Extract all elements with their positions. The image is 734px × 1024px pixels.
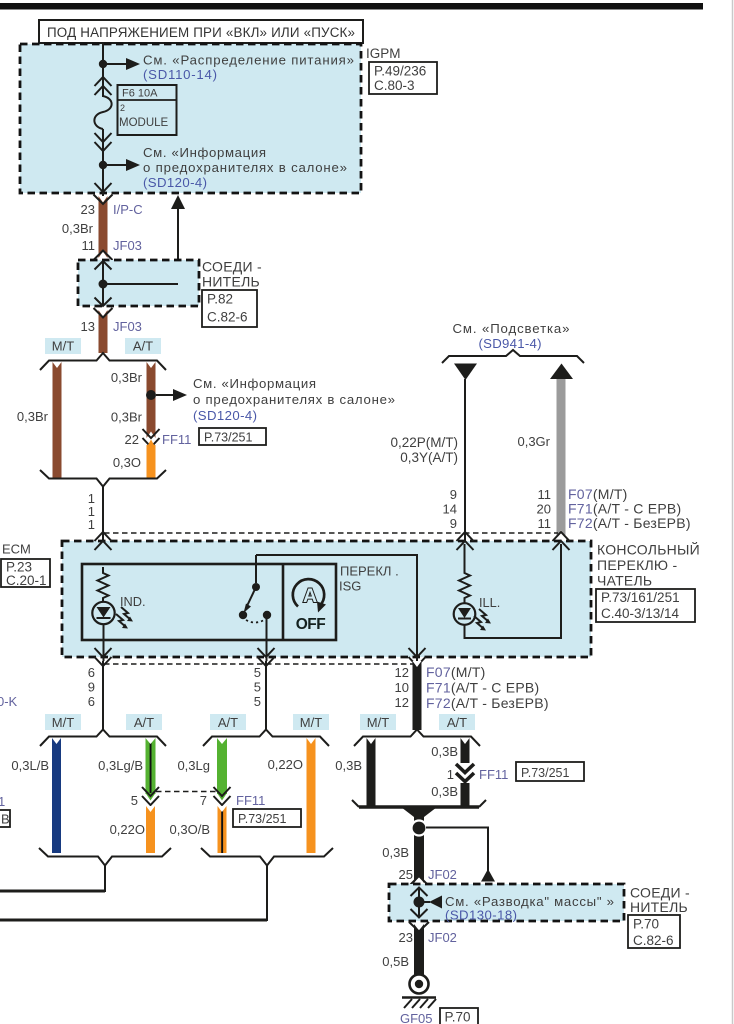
inner switch unit box [82,564,336,640]
svg-text:F72(A/T - БезEPB): F72(A/T - БезEPB) [426,695,549,711]
M/T - A/T split (upper) [40,353,166,370]
connector FF11 pin 7 [217,793,227,801]
svg-text:JF02: JF02 [428,867,457,882]
ILL loop wire [465,544,562,638]
wire 0,3B black (A/T right, above FF11) [461,738,470,763]
svg-text:20: 20 [537,502,551,517]
svg-text:0,3Lg: 0,3Lg [177,758,210,773]
svg-text:5: 5 [254,694,261,709]
svg-text:F72(A/T - БезEPB): F72(A/T - БезEPB) [568,515,691,531]
svg-text:0,3O: 0,3O [113,455,141,470]
svg-text:11: 11 [82,238,96,253]
top black bar [0,3,703,10]
page edge line [732,0,734,1024]
svg-text:F07(M/T): F07(M/T) [426,664,486,680]
svg-text:0,3B: 0,3B [431,784,458,799]
wire 0,3Lg/B green/black [146,738,156,794]
svg-text:A/T: A/T [133,339,153,354]
wire pin 6 (to split 1) [102,661,104,730]
arrow: see power distribution [107,63,127,65]
svg-text:I/P-C: I/P-C [113,202,143,217]
IGPM power block (dashed box) [20,44,361,193]
wire to body ground branch [426,828,488,872]
svg-text:5: 5 [254,680,261,695]
svg-text:11: 11 [538,516,552,531]
svg-text:0,3Lg/B: 0,3Lg/B [98,758,143,773]
svg-text:(SD941-4): (SD941-4) [479,336,542,351]
svg-text:JF03: JF03 [113,238,142,253]
svg-text:ILL.: ILL. [479,595,500,610]
svg-text:P.73/251: P.73/251 [204,431,252,445]
svg-text:0-K: 0-K [0,694,18,709]
svg-text:25: 25 [399,867,413,882]
wire 0,3Gr gray (illumination feed) [550,364,573,380]
svg-text:6: 6 [88,665,95,680]
svg-text:0,3B: 0,3B [431,744,458,759]
svg-text:См. «Подсветка»: См. «Подсветка» [453,321,570,336]
split 3 [354,730,480,747]
IGPM ref box [369,62,437,94]
exit chevron [95,183,112,192]
wire 0,22P/0,3Y thin (illumination control) [454,364,477,381]
svg-text:MODULE: MODULE [119,117,169,129]
switch feed wire to pin 12 [256,555,417,661]
svg-text:P.73/161/251: P.73/161/251 [601,590,680,605]
svg-text:9: 9 [450,516,457,531]
svg-text:A/T: A/T [447,715,467,730]
svg-text:0,3Gr: 0,3Gr [517,434,550,449]
svg-text:JF02: JF02 [428,930,457,945]
connector JF03 (dashed box СОЕДИНИТЕЛЬ) [99,252,108,259]
wire 0,3Br brown (pin 13) [99,310,108,353]
svg-text:IND.: IND. [120,594,146,609]
resistor (ILL lamp) [464,544,466,569]
svg-text:КОНСОЛЬНЫЙ: КОНСОЛЬНЫЙ [597,541,700,558]
wire 0,22O orange (below 5) [146,806,155,853]
thin dashed option link (below console) [104,663,417,665]
entry chevrons [95,532,112,550]
svg-text:0,3Br: 0,3Br [17,409,49,424]
svg-text:9: 9 [88,680,95,695]
svg-text:C.40-3/13/14: C.40-3/13/14 [601,606,680,621]
junction dot [99,60,107,68]
wire below fuse [102,129,104,196]
svg-text:0,3Br: 0,3Br [111,410,143,425]
wire 0,3Lg green [217,738,227,794]
svg-text:(SD120-4): (SD120-4) [143,175,207,190]
svg-text:(SD110-14): (SD110-14) [143,67,217,82]
svg-text:F6 10A: F6 10A [122,88,158,100]
svg-text:0,3B: 0,3B [382,845,409,860]
svg-text:M/T: M/T [52,715,74,730]
black wire below ground connector [414,924,424,975]
fuse F6 10A [94,96,111,129]
svg-text:13: 13 [81,319,95,334]
svg-text:A/T: A/T [218,715,238,730]
dashed link between connectors 5 and 7 [156,791,217,793]
svg-text:2: 2 [120,103,125,113]
title box: ПОД НАПРЯЖЕНИЕМ ПРИ «ВКЛ» ИЛИ «ПУСК» [39,20,363,43]
console switch block (КОНСОЛЬНЫЙ ПЕРЕКЛЮЧАТЕЛЬ) dashed box [62,541,591,657]
svg-text:НИТЕЛЬ: НИТЕЛЬ [630,899,688,915]
wire 0,3B black (M/T right) [367,738,376,807]
svg-text:о предохранителях в салоне»: о предохранителях в салоне» [193,392,395,407]
svg-text:P.73/251: P.73/251 [238,812,286,826]
svg-text:12: 12 [395,695,409,710]
svg-text:См. «Информация: См. «Информация [143,145,266,160]
LED IND. [92,602,114,624]
svg-text:0,22P(M/T): 0,22P(M/T) [390,435,458,450]
svg-text:F71(A/T - С EPB): F71(A/T - С EPB) [426,680,539,696]
LED ILL. [454,603,476,625]
svg-text:M/T: M/T [367,715,389,730]
svg-text:OFF: OFF [296,616,326,633]
resistor (IND lamp) [98,567,109,602]
svg-text:FF11: FF11 [162,432,191,447]
wire 0,3Br A/T right branch [147,362,156,438]
svg-text:0,3O/B: 0,3O/B [170,822,210,837]
svg-text:НИТЕЛЬ: НИТЕЛЬ [202,274,260,290]
wire 0,3B black (below FF11) [461,783,470,807]
svg-text:7: 7 [200,793,207,808]
svg-text:ПЕРЕКЛЮ -: ПЕРЕКЛЮ - [597,557,677,573]
junction dot + arrow (fuse info) [146,390,156,400]
svg-text:11: 11 [538,487,552,502]
svg-text:JF03: JF03 [113,319,142,334]
svg-text:A: A [303,585,317,607]
svg-text:FF11: FF11 [236,793,265,808]
exit chevrons (console bottom) [95,648,112,666]
ground GF05 [410,975,429,994]
junction dot [412,821,427,836]
svg-text:P.73/251: P.73/251 [521,766,569,780]
black wire to ground connector [414,812,424,883]
connector chevrons below fuse [95,133,112,151]
ISG OFF icon [293,579,324,606]
junction in connector [99,280,108,289]
svg-text:(SD120-4): (SD120-4) [193,408,257,423]
svg-text:12: 12 [395,665,409,680]
merge (upper) [40,470,166,487]
wire 0,3Br brown (pin 23 to JF03) [99,196,108,258]
wire 0,3Br M/T left branch [53,362,62,478]
up arrow into IGPM box [177,209,179,284]
svg-text:0,22O: 0,22O [268,757,303,772]
bus wire to left (upper) [0,890,105,893]
svg-text:1: 1 [447,767,454,782]
svg-text:B: B [1,812,10,827]
svg-text:22: 22 [125,432,139,447]
svg-text:C.20-1: C.20-1 [6,573,47,588]
svg-text:M/T: M/T [300,715,322,730]
svg-text:23: 23 [399,930,413,945]
junction + arrow (ground distribution) [414,897,425,908]
svg-text:о предохранителях в салоне»: о предохранителях в салоне» [143,160,347,175]
svg-text:5: 5 [254,665,261,680]
svg-text:0,3Y(A/T): 0,3Y(A/T) [400,450,458,465]
svg-text:P.70: P.70 [633,917,659,932]
split 2 [203,730,329,747]
svg-text:0,22O: 0,22O [110,822,145,837]
svg-text:23: 23 [81,202,95,217]
svg-text:См. «Распределение питания»: См. «Распределение питания» [143,53,354,68]
svg-text:ECM: ECM [2,542,31,557]
svg-text:1: 1 [0,794,5,809]
connector chevrons above fuse [95,77,112,95]
svg-text:0,3L/B: 0,3L/B [11,758,49,773]
svg-text:IGPM: IGPM [366,46,401,61]
brace [442,350,584,363]
wire to up arrow [103,283,178,285]
svg-text:5: 5 [131,793,138,808]
exit of JF03 connector [95,298,112,307]
svg-text:C.80-3: C.80-3 [374,78,415,93]
wire 0,3O/B orange/black (below 7) [218,806,227,853]
svg-text:GF05: GF05 [400,1011,433,1024]
split 1 [40,730,166,747]
bus wire to left (lower) [0,919,267,922]
connector FF11 pin 1 [456,764,474,773]
svg-text:FF11: FF11 [479,767,508,782]
svg-text:6: 6 [88,694,95,709]
svg-text:(SD130-18): (SD130-18) [445,908,517,923]
svg-text:0,3Br: 0,3Br [111,370,143,385]
svg-text:0,3B: 0,3B [335,758,362,773]
svg-text:P.70: P.70 [445,1010,471,1024]
merge 1 (navy + orange) [39,848,171,866]
svg-text:0,5B: 0,5B [382,954,409,969]
wire (from top into fuse) [102,44,104,97]
svg-text:14: 14 [443,502,457,517]
svg-text:ЧАТЕЛЬ: ЧАТЕЛЬ [597,573,652,589]
connector FF11 pin 22 [147,432,156,439]
svg-text:9: 9 [450,487,457,502]
svg-text:C.82-6: C.82-6 [207,310,248,325]
svg-text:1: 1 [88,517,95,532]
svg-text:0,3Br: 0,3Br [62,221,94,236]
svg-text:A/T: A/T [134,715,154,730]
svg-text:P.49/236: P.49/236 [374,64,426,79]
svg-text:СОЕДИ -: СОЕДИ - [202,259,262,275]
merge 3 (black wires) [359,805,479,808]
connector JF02 (dashed box СОЕДИНИТЕЛЬ ground) [414,877,424,884]
svg-text:10: 10 [395,680,409,695]
svg-text:ПЕРЕКЛ .: ПЕРЕКЛ . [340,564,399,579]
junction dot 2 [99,161,107,169]
wire 0,3O orange [147,440,156,448]
merge 2 (orange/black + orange) [201,848,333,866]
switch ISG [255,555,257,583]
thin dashed option link (top of console) [104,532,558,534]
svg-text:См. «Информация: См. «Информация [193,376,316,391]
svg-text:ISG: ISG [339,579,361,594]
wire 0,3L/B navy [52,738,61,853]
wire pin 5 (to split 2) [265,661,267,730]
svg-text:M/T: M/T [52,339,74,354]
svg-text:P.82: P.82 [207,292,233,307]
wire pin 12 black (to split 3) [413,661,422,730]
light emission arrows [121,607,131,620]
connector FF11 pin 5 [146,793,156,801]
svg-text:ПОД НАПРЯЖЕНИЕМ ПРИ «ВКЛ» ИЛИ: ПОД НАПРЯЖЕНИЕМ ПРИ «ВКЛ» ИЛИ «ПУСК» [47,25,355,40]
wire 0,22O orange (M/T mid) [307,738,316,853]
arrow: see fuse info [107,164,127,166]
svg-text:C.82-6: C.82-6 [633,933,674,948]
